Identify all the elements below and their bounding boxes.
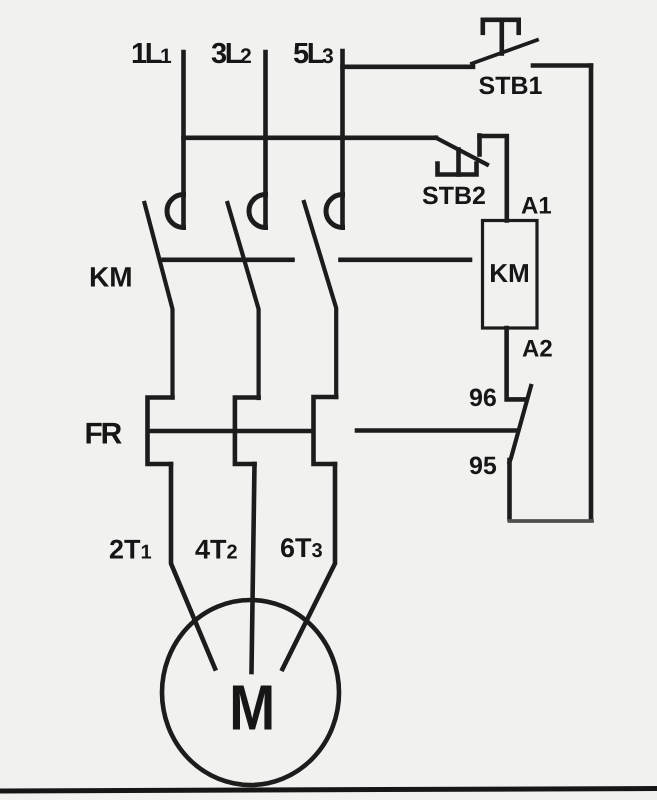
label 96 (470, 389, 496, 407)
bottom return wire (510, 519, 593, 523)
wire to STB1 (343, 65, 474, 70)
terminal label 4T2 (195, 540, 236, 559)
wire 4T2 to motor (252, 464, 255, 672)
label FR (87, 423, 122, 444)
wire L1 vertical (181, 52, 186, 228)
wire STB1 to right rail (533, 63, 591, 68)
right rail wire (589, 66, 594, 520)
label A1 (522, 197, 551, 214)
label KM contacts (91, 267, 131, 286)
terminal label 6T3 (281, 538, 322, 557)
stop button STB1 (472, 20, 537, 64)
terminal label 1L1 (133, 43, 171, 63)
KM main contact pole 3 (304, 195, 343, 398)
FR linkage line left (150, 429, 313, 434)
wire 6T3 to motor (283, 464, 336, 669)
KM linkage line left (164, 257, 293, 262)
terminal label 5L3 (294, 43, 333, 63)
start button STB2 (436, 136, 487, 175)
control bus wire (184, 136, 437, 141)
FR heater pole 1 (148, 398, 173, 465)
label STB1 (479, 77, 542, 95)
scan border bottom (2, 789, 657, 792)
wire 2T1 to motor (171, 464, 215, 669)
KM main contact pole 2 (228, 195, 266, 399)
terminal label 3L2 (212, 43, 251, 64)
motor label M (233, 686, 272, 730)
wire L3 vertical (340, 51, 345, 228)
KM linkage line right (341, 257, 471, 262)
wire STB2 to A1 (480, 136, 507, 221)
wire L2 vertical (263, 52, 268, 228)
FR heater pole 2 (235, 398, 259, 465)
label A2 (523, 340, 552, 357)
wire A2 (507, 328, 526, 399)
terminal label 2T1 (110, 540, 151, 559)
FR linkage line right (357, 428, 515, 433)
label 95 (470, 457, 496, 475)
FR NC contact 95-96 (510, 386, 532, 462)
contactor coil KM (483, 221, 538, 329)
label STB2 (423, 187, 485, 205)
FR heater pole 3 (314, 397, 337, 464)
wire 95 to bottom (507, 460, 512, 519)
motor M circle (162, 600, 339, 785)
KM main contact pole 1 (145, 195, 184, 398)
